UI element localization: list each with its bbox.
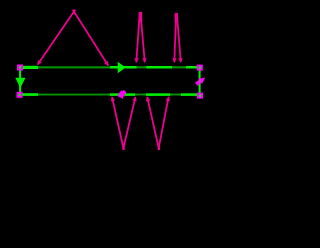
ray: big triangle left arrow	[38, 10, 76, 65]
handle: bottom-left	[17, 92, 23, 98]
ray: spike 1 right arrow	[140, 12, 144, 62]
arrowhead: green flow arrow on top interface	[118, 62, 126, 74]
wire: top interface bright overlay with flow arrow	[110, 66, 137, 69]
ray: V1 left up arrow	[112, 97, 123, 148]
handle: bottom-right	[197, 93, 203, 99]
wire: bottom interface bright overlay inside V1	[110, 93, 135, 96]
ray: V1 vertex overlap tail	[122, 146, 124, 151]
ray: big triangle right arrow	[73, 10, 109, 66]
ray: spike 2 left arrow	[174, 13, 176, 62]
wire: left vertical green connector	[19, 71, 21, 93]
ray: V2 right up arrow	[159, 97, 169, 148]
ray: spike 1 left arrow	[136, 12, 140, 62]
handle: top-left	[17, 65, 23, 71]
wire: top interface bright overlay middle	[146, 66, 172, 69]
ray: V2 left up arrow	[147, 97, 159, 148]
wire: right vertical green connector	[199, 71, 201, 94]
ray: spike 1 apex overlap bar	[139, 12, 142, 22]
marker arrow: small fuchsia arrow on right connector	[196, 78, 205, 85]
ray: spike 2 right arrow	[177, 13, 181, 62]
wire: bottom interface dark base line	[23, 94, 198, 96]
ray: spike 2 apex overlap bar	[175, 13, 178, 22]
wire: top interface bright overlay left end	[22, 66, 38, 69]
wire: bottom interface bright overlay left end	[22, 93, 38, 96]
wire: top interface bright overlay right	[186, 66, 198, 69]
arrowhead: green down arrow on left connector	[15, 78, 25, 88]
wire: bottom interface bright overlay right end	[181, 93, 198, 96]
ray: V2 vertex overlap tail	[158, 146, 160, 151]
wire: top interface dark base line	[23, 66, 198, 68]
handle: top-right	[197, 65, 203, 71]
marker arrow: small fuchsia arrow on bottom interface	[117, 90, 125, 99]
wire: bottom interface bright overlay inside V2	[146, 93, 170, 96]
ray: V1 right up arrow	[123, 97, 135, 148]
